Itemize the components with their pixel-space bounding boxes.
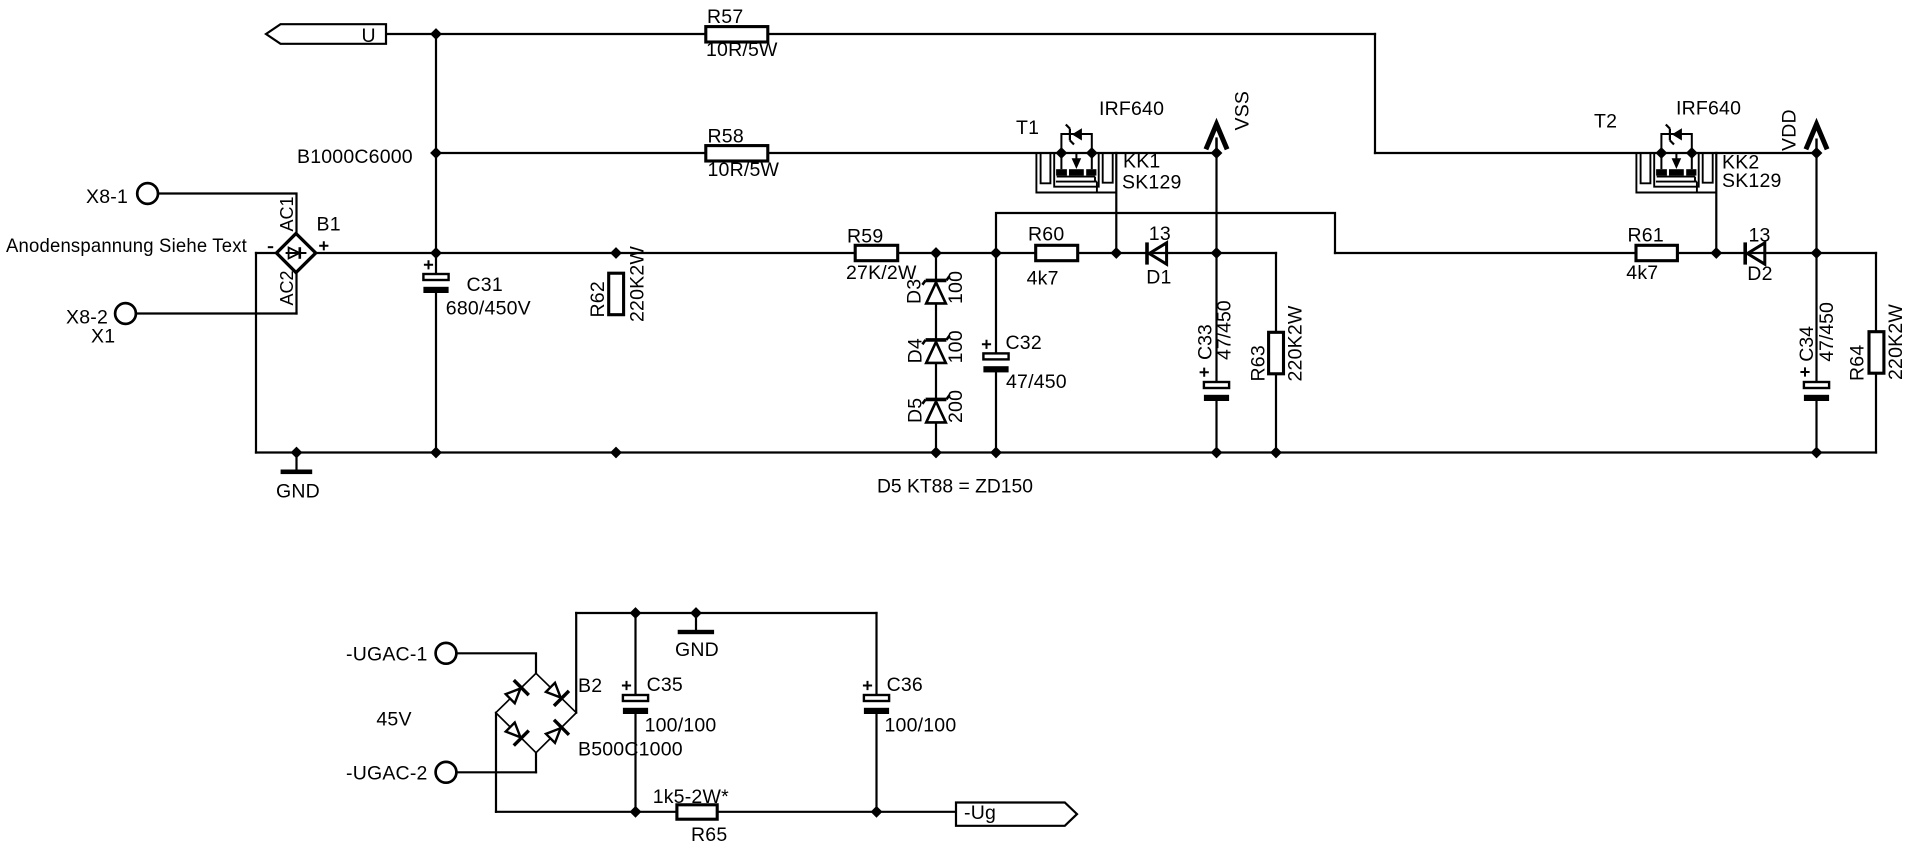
wire R58/T1 row — [436, 152, 1217, 154]
wire -UGAC-2 row — [457, 771, 537, 773]
wire zener chain D3-D5 — [935, 253, 937, 453]
svg-text:-UGAC-1: -UGAC-1 — [346, 643, 428, 665]
svg-text:100/100: 100/100 — [885, 714, 957, 736]
node VDD — [1811, 148, 1821, 158]
svg-text:SK129: SK129 — [1122, 172, 1182, 194]
svg-text:R59: R59 — [847, 225, 883, 247]
transistor T1 with heatsink symbol — [1036, 125, 1116, 193]
supply arrow VDD — [1806, 124, 1827, 153]
svg-text:R65: R65 — [691, 824, 727, 846]
svg-text:T1: T1 — [1016, 117, 1039, 139]
node R62 bottom — [611, 447, 621, 457]
B2 diode top-left — [503, 680, 529, 706]
svg-text:SK129: SK129 — [1722, 170, 1782, 192]
wire C31 bottom lead — [435, 293, 437, 453]
capacitor C31 plates — [423, 274, 448, 293]
B2 diode top-right — [543, 680, 569, 706]
bridge rectifier B2 — [496, 673, 577, 752]
svg-text:B1000C6000: B1000C6000 — [297, 146, 413, 168]
wire B2 AC2 stub — [535, 753, 537, 773]
svg-text:U: U — [362, 25, 376, 47]
node T2 source — [1687, 148, 1697, 158]
svg-text:R61: R61 — [1628, 225, 1664, 247]
wire bottom ground rail — [256, 451, 1876, 453]
node T2 gate R61/D2 — [1711, 248, 1721, 258]
node C36 bottom / R65 right — [871, 807, 881, 817]
wire C36 branch — [875, 613, 877, 812]
svg-text:GND: GND — [276, 481, 320, 503]
svg-text:C35: C35 — [647, 674, 683, 696]
svg-text:220K2W: 220K2W — [1285, 305, 1307, 381]
wire C32 top lead — [995, 253, 997, 353]
svg-text:B500C1000: B500C1000 — [578, 738, 683, 760]
capacitor C32 plates — [983, 353, 1008, 372]
svg-text:R63: R63 — [1248, 345, 1270, 381]
node D2/C34 top — [1811, 248, 1821, 258]
resistor R64 body — [1869, 332, 1884, 374]
resistor R63 body — [1269, 332, 1284, 374]
svg-text:220K2W: 220K2W — [627, 246, 649, 322]
wire top rail from U flag to right corner — [386, 33, 1375, 35]
svg-text:KK1: KK1 — [1123, 151, 1160, 173]
svg-text:R62: R62 — [587, 281, 609, 317]
svg-text:100/100: 100/100 — [645, 714, 717, 736]
node C32 top / gate riser — [991, 248, 1001, 258]
capacitor C33 plus sign — [1200, 368, 1209, 377]
supply arrow VSS — [1206, 124, 1227, 153]
wire gate feed riser and over-route to R61 — [996, 213, 1335, 253]
svg-text:13: 13 — [1149, 223, 1171, 245]
wire bridge minus stub — [256, 252, 277, 254]
ground symbol upper — [281, 470, 313, 475]
wire B2 minus down — [495, 713, 497, 812]
wire T2 gate lead down to R61/D2 node — [1715, 153, 1717, 253]
wire right corner down to T2 row — [1374, 34, 1376, 153]
svg-text:X1: X1 — [91, 326, 115, 348]
svg-text:X8-1: X8-1 — [86, 186, 128, 208]
wire B2 plus riser — [575, 613, 577, 713]
svg-text:D5: D5 — [905, 398, 927, 423]
svg-text:10R/5W: 10R/5W — [706, 39, 778, 61]
node C32 bottom — [991, 447, 1001, 457]
capacitor C34 plus sign — [1800, 367, 1809, 376]
svg-text:47/450: 47/450 — [1006, 371, 1067, 393]
node C35 top — [630, 608, 640, 618]
svg-text:4k7: 4k7 — [1027, 268, 1059, 290]
node C31 bottom — [431, 447, 441, 457]
wire lower top rail — [576, 612, 876, 614]
zener diode D5 — [922, 395, 949, 422]
svg-text:IRF640: IRF640 — [1099, 98, 1164, 120]
transistor T2 with heatsink symbol — [1636, 125, 1716, 193]
svg-text:VSS: VSS — [1232, 91, 1254, 131]
wire X8-1 to bridge AC1 — [158, 194, 296, 234]
zener diode D3 — [922, 276, 949, 303]
wire R63 branch down — [1275, 253, 1277, 453]
svg-text:D4: D4 — [905, 338, 927, 363]
wire C34 leads — [1815, 253, 1817, 453]
node R62 top — [611, 248, 621, 258]
svg-text:R58: R58 — [708, 125, 744, 147]
svg-text:R60: R60 — [1028, 224, 1064, 246]
wire R61/D2 row — [1335, 252, 1876, 254]
svg-text:R57: R57 — [707, 6, 743, 28]
terminal X8-2 — [115, 303, 136, 324]
svg-text:D5 KT88 = ZD150: D5 KT88 = ZD150 — [877, 476, 1033, 498]
capacitor C35 plates — [623, 695, 648, 714]
node R58 row / x436 — [431, 148, 441, 158]
svg-text:Anodenspannung Siehe Text: Anodenspannung Siehe Text — [6, 235, 247, 257]
svg-text:AC2: AC2 — [277, 270, 297, 305]
net flag -Ug — [956, 803, 1077, 826]
svg-text:1k5-2W*: 1k5-2W* — [653, 786, 729, 808]
wire T2 row — [1375, 152, 1817, 154]
node C35 bottom / R65 left — [630, 807, 640, 817]
wire lower bottom rail to -Ug — [496, 811, 956, 813]
diode D1 — [1147, 242, 1167, 264]
node D3 top — [931, 248, 941, 258]
resistor R65 body — [677, 805, 717, 819]
node D1/C33 top — [1211, 248, 1221, 258]
wire VSS node down through C33 — [1215, 139, 1217, 453]
svg-text:B1: B1 — [317, 213, 341, 235]
wire T1 gate lead down to R60/D1 node — [1115, 153, 1117, 253]
node VSS — [1211, 148, 1221, 158]
node R63 bottom — [1271, 447, 1281, 457]
node T1 drain — [1056, 148, 1066, 158]
resistor R57 body — [706, 27, 768, 42]
svg-text:-UGAC-2: -UGAC-2 — [346, 763, 428, 785]
wire X8-2 row — [136, 312, 296, 314]
node B+ / C31 top — [431, 248, 441, 258]
wire VDD node down to D2 node — [1815, 153, 1817, 253]
wire GND stub — [295, 453, 297, 470]
svg-text:45V: 45V — [376, 709, 411, 731]
svg-text:680/450V: 680/450V — [446, 298, 531, 320]
resistor R58 body — [706, 146, 768, 161]
terminal -UGAC-2 — [436, 762, 457, 783]
svg-text:C31: C31 — [467, 274, 503, 296]
capacitor C36 plus sign — [863, 681, 872, 690]
B2 diode bottom-right — [543, 720, 569, 746]
resistor R62 body — [609, 273, 624, 315]
svg-text:B2: B2 — [578, 675, 602, 697]
svg-text:47/450: 47/450 — [1816, 302, 1838, 362]
wire bridge AC2 stub — [295, 273, 297, 314]
terminal -UGAC-1 — [436, 643, 457, 664]
wire vertical bus at x436 from top rail through B+ node — [435, 34, 437, 274]
svg-text:D1: D1 — [1146, 266, 1171, 288]
node GND rail at GND symbol — [291, 447, 301, 457]
B1 plus mark — [319, 241, 328, 250]
svg-text:C34: C34 — [1796, 326, 1818, 362]
capacitor C31 plus sign — [424, 260, 433, 269]
resistor R59 body — [855, 245, 898, 260]
svg-text:220K2W: 220K2W — [1885, 304, 1907, 380]
svg-text:D3: D3 — [904, 279, 926, 304]
B1 minus mark — [268, 246, 273, 248]
svg-text:VDD: VDD — [1779, 109, 1801, 151]
terminal X8-1 — [137, 183, 158, 204]
node D5 bottom — [931, 447, 941, 457]
net flag U — [266, 24, 386, 44]
wire C35 branch — [634, 613, 636, 812]
B2 diode bottom-left — [503, 720, 529, 746]
bridge rectifier B1 — [277, 234, 316, 273]
svg-text:100: 100 — [945, 330, 967, 363]
wire R64 branch down — [1875, 253, 1877, 453]
svg-text:200: 200 — [945, 390, 967, 423]
svg-text:C36: C36 — [887, 674, 923, 696]
node top rail / x436 — [431, 29, 441, 39]
capacitor C36 plates — [864, 695, 889, 714]
capacitor C33 plates — [1204, 382, 1229, 401]
wire -UGAC-1 to B2 AC1 — [457, 653, 537, 673]
svg-text:R64: R64 — [1847, 345, 1869, 381]
node lower GND stub — [691, 608, 701, 618]
node R60/D1 gate T1 — [1111, 248, 1121, 258]
wire C32 bottom lead — [995, 372, 997, 452]
svg-text:D2: D2 — [1747, 263, 1772, 285]
resistor R60 body — [1036, 245, 1078, 260]
node T2 drain — [1656, 148, 1666, 158]
resistor R61 body — [1636, 245, 1677, 260]
svg-text:4k7: 4k7 — [1626, 262, 1658, 284]
capacitor C32 plus sign — [982, 340, 991, 349]
svg-text:C32: C32 — [1006, 332, 1042, 354]
svg-text:13: 13 — [1749, 225, 1771, 247]
svg-text:100: 100 — [945, 271, 967, 304]
node C33 bottom — [1211, 447, 1221, 457]
svg-text:GND: GND — [675, 639, 719, 661]
capacitor C35 plus sign — [622, 681, 631, 690]
svg-text:-Ug: -Ug — [964, 802, 996, 824]
svg-text:47/450: 47/450 — [1214, 300, 1236, 360]
wire lower GND stub — [695, 613, 697, 630]
svg-text:T2: T2 — [1594, 111, 1617, 133]
zener diode D4 — [922, 336, 949, 363]
capacitor C34 plates — [1804, 382, 1829, 401]
ground symbol lower — [678, 630, 714, 634]
diode D2 — [1745, 242, 1765, 264]
node T1 source — [1087, 148, 1097, 158]
wire left edge down — [255, 253, 257, 453]
svg-text:10R/5W: 10R/5W — [708, 159, 780, 181]
wire main B+ row — [316, 252, 1276, 254]
svg-text:IRF640: IRF640 — [1676, 97, 1741, 119]
node C34 bottom — [1811, 447, 1821, 457]
svg-text:AC1: AC1 — [277, 196, 297, 231]
